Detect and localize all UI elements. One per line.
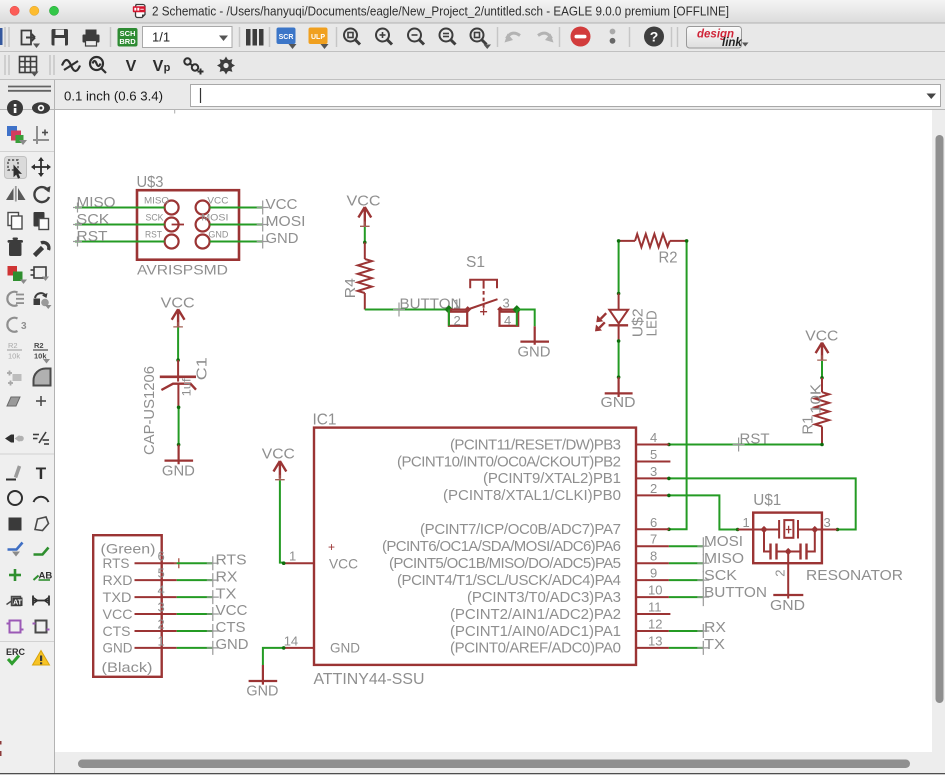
wire net RST (IC1 pin 4 to R1)	[669, 444, 822, 446]
net label SCK	[73, 211, 110, 230]
svg-text:U$3: U$3	[137, 174, 164, 191]
toolbar row 1	[0, 24, 945, 52]
junction (BUTTON / S1 pin 1-2)	[445, 305, 454, 314]
wire net RST (left)	[75, 241, 165, 243]
svg-text:ULP: ULP	[311, 34, 325, 41]
ground symbol (IC1 pin 14)	[246, 665, 278, 700]
svg-text:TX: TX	[216, 585, 237, 602]
net label VCC	[257, 196, 298, 215]
svg-text:10K: 10K	[808, 384, 825, 414]
resonator internal crystal	[753, 520, 822, 539]
svg-text:10k: 10k	[8, 352, 20, 361]
svg-text:3: 3	[503, 296, 510, 311]
wire S1 to GND	[517, 310, 535, 327]
svg-text:4: 4	[504, 313, 511, 328]
wire net RTS	[177, 562, 213, 564]
svg-text:6: 6	[650, 515, 657, 530]
svg-text:3: 3	[21, 321, 27, 332]
net label GND	[257, 230, 299, 249]
svg-text:3: 3	[824, 515, 831, 530]
net label RST	[73, 228, 108, 247]
svg-text:(PCINT5/OC1B/MISO/DO/ADC5)PA5: (PCINT5/OC1B/MISO/DO/ADC5)PA5	[389, 555, 621, 572]
connector X (Green/Black FTDI) body	[93, 535, 162, 677]
wire IC1 pin 2 (PB0) to resonator pin 1	[669, 495, 738, 529]
wire S1 pin3 to pin4	[516, 310, 518, 326]
svg-text:ERC: ERC	[6, 647, 26, 657]
canvas	[55, 110, 932, 752]
svg-text:2: 2	[158, 617, 165, 632]
supply symbol VCC (above R1)	[805, 327, 838, 365]
ground symbol (S1)	[518, 326, 551, 360]
svg-text:1: 1	[158, 633, 165, 648]
resonator junction dots	[760, 526, 767, 533]
svg-text:(PCINT0/AREF/ADC0)PA0: (PCINT0/AREF/ADC0)PA0	[450, 640, 621, 657]
svg-text:(PCINT11/RESET/DW)PB3: (PCINT11/RESET/DW)PB3	[450, 436, 621, 453]
svg-text:AVRISPSMD: AVRISPSMD	[137, 262, 228, 278]
svg-text:V: V	[153, 58, 164, 75]
FTDI pin stubs	[135, 563, 177, 648]
svg-text:1: 1	[289, 549, 296, 564]
svg-text:SCR: SCR	[279, 34, 294, 41]
ground symbol (C1)	[162, 445, 195, 480]
resonator internal capacitors	[764, 530, 815, 560]
wire C1 to GND	[178, 407, 180, 444]
title bar	[0, 0, 945, 23]
svg-text:(PCINT10/INT0/OC0A/CKOUT)PB2: (PCINT10/INT0/OC0A/CKOUT)PB2	[397, 453, 621, 470]
net label BUTTON	[697, 584, 767, 606]
supply symbol VCC (above R4)	[347, 193, 381, 232]
svg-text:VCC: VCC	[103, 606, 133, 622]
wire net BUTTON (IC1 pin 10)	[669, 596, 703, 598]
IC1 pin stubs left	[284, 563, 314, 648]
svg-text:4: 4	[158, 583, 165, 598]
svg-text:link: link	[722, 37, 742, 49]
svg-text:12: 12	[648, 617, 662, 632]
wire net CTS	[177, 630, 213, 632]
svg-text:(PCINT2/AIN1/ADC2)PA2: (PCINT2/AIN1/ADC2)PA2	[450, 606, 621, 623]
wire net RX (IC1 pin 12)	[669, 630, 703, 632]
svg-text:ATTINY44-SSU: ATTINY44-SSU	[314, 671, 425, 688]
svg-text:CAP-US1206: CAP-US1206	[141, 366, 158, 455]
net label RTS	[207, 551, 247, 570]
svg-text:7: 7	[650, 532, 657, 547]
wire VCC to R4	[364, 227, 366, 242]
switch S1	[449, 280, 518, 326]
svg-text:(PCINT1/AIN0/ADC1)PA1: (PCINT1/AIN0/ADC1)PA1	[450, 623, 621, 640]
svg-text:RTS: RTS	[103, 555, 130, 571]
wire net BUTTON (R4 to S1)	[365, 309, 449, 311]
svg-text:V: V	[126, 58, 137, 75]
svg-text:CTS: CTS	[216, 619, 246, 636]
wire VCC to IC1 pin 1	[280, 481, 284, 563]
ground symbol (LED)	[601, 377, 636, 411]
svg-text:S1: S1	[466, 254, 485, 271]
net label BUTTON	[393, 296, 462, 317]
svg-text:1: 1	[743, 515, 750, 530]
svg-text:GND: GND	[246, 683, 278, 700]
left tool sidebar	[0, 110, 54, 773]
svg-text:11: 11	[648, 600, 662, 615]
IC1 ATTINY44-SSU body	[314, 428, 636, 665]
svg-text:CTS: CTS	[103, 623, 131, 639]
net label RX	[207, 568, 238, 587]
svg-text:GND: GND	[518, 344, 551, 361]
svg-text:RST: RST	[145, 229, 162, 239]
svg-text:1uf: 1uf	[180, 378, 194, 397]
svg-text:3: 3	[158, 600, 165, 615]
wire net VCC (U$3 right)	[210, 207, 263, 209]
net label MISO	[73, 194, 116, 213]
svg-text:MOSI: MOSI	[704, 533, 743, 550]
svg-text:?: ?	[650, 29, 659, 45]
wire LED to GND	[618, 341, 620, 377]
svg-text:6: 6	[158, 549, 165, 564]
net label VCC	[207, 602, 248, 621]
svg-text:RXD: RXD	[103, 572, 133, 588]
wire net RX	[177, 579, 213, 581]
svg-text:(PCINT9/XTAL2)PB1: (PCINT9/XTAL2)PB1	[483, 470, 621, 487]
FTDI origin cross	[174, 558, 184, 568]
svg-text:MOSI: MOSI	[266, 213, 306, 230]
net label TX	[697, 636, 725, 655]
svg-text:LED: LED	[644, 310, 661, 336]
svg-text:VCC: VCC	[805, 327, 838, 344]
svg-text:MISO: MISO	[144, 195, 169, 205]
horizontal scrollbar	[55, 752, 945, 773]
svg-text:RESONATOR: RESONATOR	[806, 567, 903, 584]
svg-text:T: T	[36, 464, 47, 483]
wire VCC to R1	[821, 361, 823, 378]
svg-text:(PCINT8/XTAL1/CLKI)PB0: (PCINT8/XTAL1/CLKI)PB0	[443, 487, 621, 504]
svg-text:R4: R4	[342, 278, 359, 298]
svg-text:5: 5	[158, 566, 165, 581]
svg-text:MISO: MISO	[77, 194, 116, 211]
wire R2 right to IC1 pin 6 (PA7)	[669, 241, 687, 529]
svg-text:2: 2	[773, 569, 788, 576]
net label CTS	[207, 619, 246, 638]
wire net MISO (IC1 pin 8)	[669, 562, 703, 564]
svg-text:9: 9	[650, 566, 657, 581]
wire net MOSI (U$3 right)	[210, 224, 263, 226]
capacitor C1 branch: supply symbol VCC	[161, 295, 195, 332]
svg-text:+: +	[328, 540, 335, 554]
svg-text:3: 3	[650, 464, 657, 479]
wire net SCK (IC1 pin 9)	[669, 579, 703, 581]
svg-text:R2: R2	[34, 341, 44, 350]
svg-text:1/1: 1/1	[152, 30, 170, 45]
svg-text:SCK: SCK	[146, 212, 164, 222]
svg-text:(PCINT7/ICP/OC0B/ADC7)PA7: (PCINT7/ICP/OC0B/ADC7)PA7	[420, 521, 621, 538]
IC1 pin numbers	[284, 430, 663, 648]
wire net TX (IC1 pin 13)	[669, 647, 703, 649]
svg-text:IC1: IC1	[313, 412, 337, 429]
svg-text:RX: RX	[704, 619, 726, 636]
svg-text:SCK: SCK	[77, 211, 110, 228]
svg-text:GND: GND	[770, 597, 805, 614]
svg-text:10: 10	[648, 583, 662, 598]
svg-text:RX: RX	[216, 568, 238, 585]
wire net MOSI (IC1 pin 7)	[669, 545, 703, 547]
svg-text:GND: GND	[216, 636, 249, 653]
svg-text:(PCINT3/T0/ADC3)PA3: (PCINT3/T0/ADC3)PA3	[467, 589, 621, 606]
svg-text:VCC: VCC	[329, 555, 358, 571]
svg-text:14: 14	[284, 633, 298, 648]
svg-text:2 Schematic - /Users/hanyuqi/D: 2 Schematic - /Users/hanyuqi/Documents/e…	[152, 4, 729, 19]
svg-text:TXD: TXD	[103, 589, 132, 605]
svg-text:2: 2	[454, 313, 461, 328]
svg-text:VCC: VCC	[207, 195, 229, 205]
svg-text:0.1 inch (0.6 3.4): 0.1 inch (0.6 3.4)	[64, 90, 163, 104]
svg-text:GND: GND	[330, 640, 360, 656]
junction (S1 pin 3-4)	[512, 305, 521, 314]
toolbar row 2	[0, 52, 945, 80]
toolbar row 3	[0, 80, 945, 110]
svg-text:GND: GND	[103, 640, 133, 656]
svg-text:R2: R2	[659, 250, 678, 267]
svg-text:AT: AT	[13, 600, 23, 607]
svg-text:GND: GND	[266, 230, 299, 247]
svg-text:R2: R2	[8, 341, 18, 350]
wire net GND (U$3 right)	[210, 241, 263, 243]
svg-text:RST: RST	[77, 228, 108, 245]
connector U$3 AVRISPSMD	[137, 190, 239, 260]
wire IC1 pin 14 to GND	[263, 648, 284, 665]
wire net TX	[177, 596, 213, 598]
svg-text:RST: RST	[740, 430, 770, 447]
svg-text:VCC: VCC	[266, 196, 298, 213]
svg-text:p: p	[164, 62, 171, 74]
IC1 pin stubs right	[636, 445, 670, 648]
net label RST	[733, 430, 770, 451]
net label MOSI	[697, 533, 743, 555]
svg-text:C1: C1	[194, 357, 211, 380]
svg-text:(PCINT4/T1/SCL/USCK/ADC4)PA4: (PCINT4/T1/SCL/USCK/ADC4)PA4	[397, 572, 621, 589]
wire net MISO (left)	[75, 207, 165, 209]
svg-text:(Black): (Black)	[102, 659, 153, 675]
capacitor C1	[160, 360, 196, 407]
zoom tool icons	[344, 29, 487, 45]
wire net GND (FTDI)	[177, 647, 213, 649]
svg-text:VCC: VCC	[216, 602, 248, 619]
svg-text:VCC: VCC	[262, 446, 295, 463]
net label MOSI	[257, 213, 306, 232]
vertical scrollbar	[932, 110, 945, 752]
svg-text:MOSI: MOSI	[201, 212, 228, 222]
U$1 pin 2 to GND	[787, 552, 789, 599]
svg-text:GND: GND	[162, 462, 195, 479]
resistor R1	[815, 378, 829, 445]
net label SCK	[697, 567, 737, 589]
wire net SCK (left)	[75, 224, 165, 226]
svg-text:SCK: SCK	[704, 567, 737, 584]
net label TX	[207, 585, 237, 604]
wire R2 to LED	[618, 241, 620, 294]
svg-text:(PCINT6/OC1A/SDA/MOSI/ADC6)PA6: (PCINT6/OC1A/SDA/MOSI/ADC6)PA6	[382, 538, 621, 555]
IC1 pin names	[382, 436, 621, 656]
resonator U$1 body	[753, 513, 822, 564]
wire VCC to C1	[177, 328, 179, 361]
net label MISO	[697, 550, 744, 572]
svg-text:GND: GND	[601, 394, 636, 411]
svg-text:13: 13	[648, 633, 662, 648]
svg-text:RTS: RTS	[216, 551, 247, 568]
ground symbol (resonator)	[770, 595, 805, 614]
wire net VCC (FTDI)	[177, 613, 213, 615]
FTDI pin numbers	[158, 549, 165, 649]
svg-text:U$1: U$1	[753, 492, 781, 509]
schematic drawing	[174, 110, 176, 114]
svg-text:4: 4	[650, 430, 657, 445]
LED emission arrows	[595, 313, 606, 331]
U$1 pin 3 stub	[822, 529, 838, 531]
LED U$2	[609, 294, 629, 342]
svg-text:8: 8	[650, 549, 657, 564]
net label RX	[697, 619, 726, 638]
svg-text:GND: GND	[208, 229, 229, 239]
svg-text:5: 5	[650, 447, 657, 462]
svg-text:R1: R1	[800, 416, 817, 435]
svg-text:MISO: MISO	[704, 550, 744, 567]
wire IC1 pin 3 (PB1) to resonator pin 3	[669, 478, 856, 529]
resistor R4	[358, 242, 372, 309]
svg-text:2: 2	[650, 481, 657, 496]
wire S1 pin1 to pin2	[448, 310, 450, 326]
svg-text:1: 1	[453, 297, 460, 312]
net label GND	[207, 636, 249, 655]
U$1 pin 1 stub	[738, 529, 754, 531]
svg-text:BRD: BRD	[119, 37, 136, 46]
svg-text:BUTTON: BUTTON	[704, 584, 767, 601]
svg-text:TX: TX	[704, 636, 725, 653]
supply symbol VCC (IC1 pin 1)	[262, 446, 295, 485]
resistor R2	[619, 234, 687, 247]
